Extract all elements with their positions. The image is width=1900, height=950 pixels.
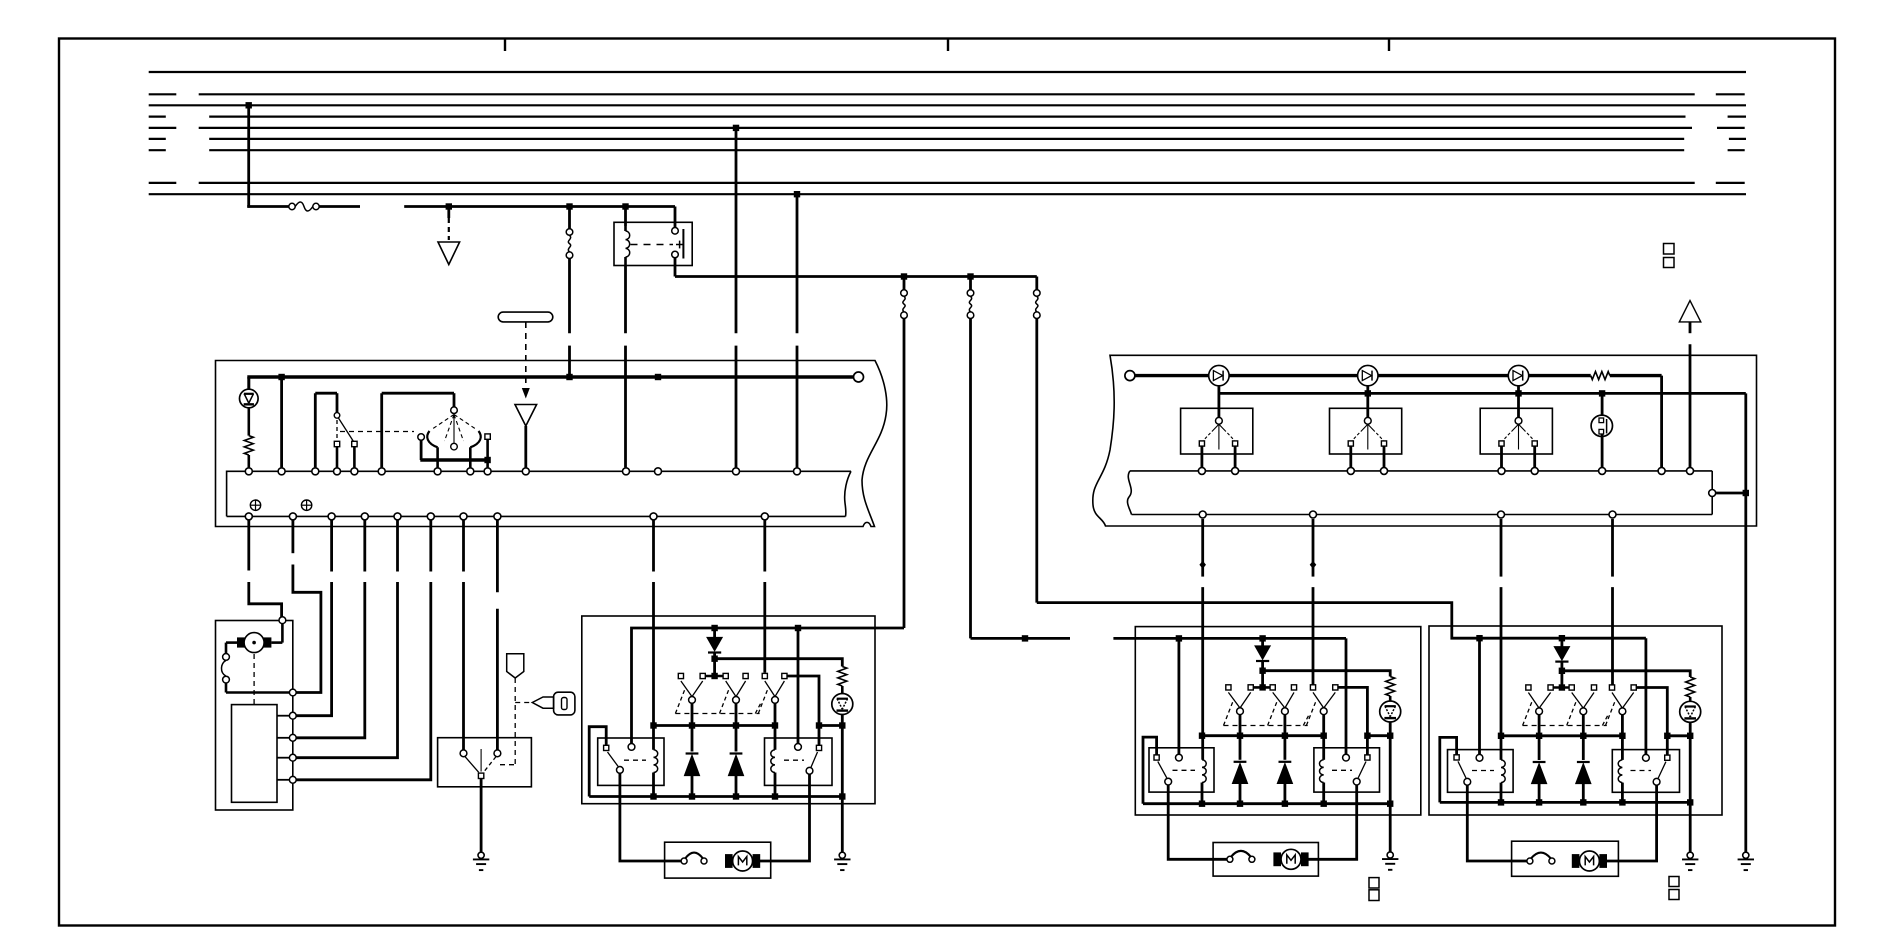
switch pivots (driver) <box>689 697 696 704</box>
node feed/connector drop <box>566 203 572 209</box>
master switch center contact <box>451 443 458 450</box>
wire: right contact leg <box>486 439 489 467</box>
wire: pr down-relay pivot to motor <box>1603 785 1656 861</box>
wire: motor left brush to connector <box>226 641 237 644</box>
wire: pr diode out to resistor <box>1562 671 1690 677</box>
pass-front control unit box <box>1135 627 1421 815</box>
terminal (panel ground) <box>1709 490 1716 497</box>
dashed mechanical link (key) <box>253 654 255 705</box>
node diode out <box>711 656 717 662</box>
pr down-relay pivot <box>1653 778 1660 785</box>
node driver feed/relay2 <box>795 625 801 631</box>
wire: harness bus line 6 <box>209 138 1684 140</box>
master switch left blade <box>427 431 437 447</box>
down-relay contact fixed <box>816 745 821 750</box>
stubs block to pins <box>277 715 289 717</box>
up-relay coil <box>654 750 658 773</box>
node pr feed/diode <box>1559 635 1565 641</box>
up-relay contact fixed <box>604 745 609 750</box>
dashed link lock-switch to master knob <box>340 431 414 433</box>
wire: panel to pr switch unit3 <box>1611 519 1614 577</box>
pr up-relay pivot <box>1464 778 1471 785</box>
wire: to key cylinder unit pin C <box>330 520 333 571</box>
nodes on pr mid tie bar <box>1498 733 1504 739</box>
wire: panel to pf relay coil <box>1201 519 1204 577</box>
node on bus line 3 <box>246 102 252 108</box>
wire: pf mid tie bar <box>1202 734 1324 737</box>
wire: unit3 to relay2 contact <box>787 676 819 745</box>
node pf feed/diode <box>1259 635 1265 641</box>
terminal (panel feed) <box>1125 371 1135 381</box>
down-relay dashed link <box>784 759 804 761</box>
node feed-bus/terminal drop <box>278 374 284 380</box>
wire: master switch feed lower <box>568 258 571 333</box>
wire: switch 2 legs <box>1349 446 1352 467</box>
wire: pivot3 to coil2 <box>774 703 777 750</box>
wire: feed corner into relay contact <box>674 207 677 228</box>
diode (driver, main) <box>713 628 716 638</box>
antenna arrow symbol <box>1679 301 1701 322</box>
wire: diodeA to switch1 <box>1218 385 1221 417</box>
diode B (panel) <box>1358 365 1378 385</box>
wire: driver feed bus (top) <box>632 628 905 744</box>
window lock switch <box>314 393 317 467</box>
key switch contact A <box>460 750 467 757</box>
pr up-relay contact center <box>1476 754 1483 761</box>
terminal row (switch side pins) <box>245 468 252 475</box>
pf down-relay contact center <box>1343 754 1350 761</box>
key switch blade <box>465 757 479 773</box>
key-in detent symbol <box>507 654 524 678</box>
power window master switch body <box>216 361 887 527</box>
wire: to key cylinder unit pin D <box>363 520 366 571</box>
pr down-relay contact center <box>1643 754 1650 761</box>
node T center <box>711 673 717 679</box>
wire: pf resistor to lamp <box>1389 696 1392 701</box>
screw terminal 2 <box>301 500 311 510</box>
wire: pr T feed <box>1561 671 1564 685</box>
up-relay box (pr) <box>1448 750 1514 793</box>
terminal row (panel switch side) <box>1198 467 1205 474</box>
wire: pr coil1 bottom to bus <box>1500 783 1503 803</box>
wire: pass-rear feed horizontal <box>1037 603 1646 639</box>
node pf diode out <box>1259 668 1265 674</box>
wire: pf ground bus <box>1143 802 1390 805</box>
diode (pass-front, main) <box>1261 638 1264 646</box>
relay box (power window relay) <box>614 222 692 265</box>
wire: right blade leg <box>469 447 472 467</box>
node subbus/diodeC <box>1515 390 1521 396</box>
nodes on pr ground bus <box>1498 799 1504 805</box>
node cross-seg/relay2 leg <box>816 722 822 728</box>
passenger switch 1 contacts <box>1199 441 1204 446</box>
pf down-relay dashed link <box>1332 769 1352 771</box>
master switch right contact <box>485 434 490 439</box>
wire: pf down-relay pivot to motor <box>1306 785 1357 859</box>
wire: switch 3 legs <box>1500 446 1503 467</box>
passenger switch 1 box <box>1181 408 1253 454</box>
wire: pr up-relay bracket <box>1440 737 1457 802</box>
wire: pf coil1 bottom to bus <box>1201 783 1204 804</box>
node pr cross-seg/relay2 leg <box>1664 733 1670 739</box>
pf up-relay coil <box>1202 760 1206 783</box>
switch contacts row (pr) <box>1526 685 1531 690</box>
pr up-relay blade <box>1458 761 1466 778</box>
wire: left contact to bridge <box>420 440 423 460</box>
wire: pf pivot3 to coil2 <box>1322 715 1325 760</box>
key switch common contact <box>478 773 483 778</box>
wire: up-relay bracket <box>589 727 606 797</box>
wire: harness bus line 7 <box>209 149 1684 151</box>
wire: coil1 bottom to bus <box>652 773 655 797</box>
switch pivots (pr) <box>1536 708 1543 715</box>
passenger switch 1 mechanism <box>1212 424 1219 431</box>
key switch contact B <box>494 750 501 757</box>
resistor (lamp dropping) <box>244 436 253 455</box>
wire: pf diode out to resistor <box>1263 671 1391 677</box>
master switch left contact <box>418 434 425 441</box>
interior light (pill symbol) <box>498 312 553 322</box>
wire: rear passenger feed upper <box>1035 277 1038 290</box>
node ground jumper/ground wire <box>1743 490 1749 496</box>
wire: connector to pin B <box>225 683 228 693</box>
down-relay blade <box>811 752 818 767</box>
wire: front passenger feed lower <box>969 318 972 638</box>
wire: panel ground jumper <box>1716 492 1746 495</box>
fuse (circuit breaker) in feed line <box>289 203 295 209</box>
pass-rear control unit box <box>1429 626 1722 815</box>
master switch actuating rays <box>433 415 454 429</box>
wire: to driver relay coil 1 <box>652 520 655 571</box>
down-relay coil <box>771 750 775 773</box>
passenger switch 2 mechanism <box>1361 424 1368 431</box>
node feed/relay coil <box>622 203 628 209</box>
switch contacts row (driver) <box>678 673 683 678</box>
up-relay dashed link <box>624 759 646 761</box>
wire: pr mid tie bar <box>1501 734 1622 737</box>
wire: lamp to resistor <box>248 408 251 436</box>
resistor (pr lamp) <box>1686 677 1695 697</box>
node subbus/diodeB <box>1365 390 1371 396</box>
up-relay box (pf) <box>1149 748 1214 792</box>
actuator motor symbol <box>237 637 245 647</box>
wire: pivot1 to diode1 <box>691 703 694 751</box>
key switch dashed blade <box>484 757 497 773</box>
light beam arrowhead <box>522 388 530 399</box>
wire: pf unit3 to relay2 contact <box>1338 687 1368 755</box>
wire: pr lamp to bus <box>1689 722 1692 802</box>
diode A (panel) <box>1209 365 1229 385</box>
pf down-relay coil <box>1319 760 1323 783</box>
connector in front passenger feed <box>967 290 974 297</box>
dashed light beam <box>525 322 527 387</box>
wire: panel to pf switch unit3 <box>1312 519 1315 577</box>
node pf T center <box>1259 684 1265 690</box>
wire: pf bus to ground <box>1389 804 1392 852</box>
wire: feed-bus drop to pin <box>280 377 283 467</box>
nodes on mid tie bar <box>650 722 656 728</box>
down-relay box (pr) <box>1612 750 1679 793</box>
node pr T center <box>1559 684 1565 690</box>
wire: pr pivot2 to diode2 <box>1582 715 1585 760</box>
pin (key unit top) <box>279 617 286 624</box>
wire: drop from bus line 3 <box>247 105 250 206</box>
wire: rear passenger feed lower <box>1035 318 1038 602</box>
driver control unit box <box>582 616 875 804</box>
passenger switch 2 contacts <box>1348 441 1353 446</box>
wire: drop to master switch feed <box>568 207 571 229</box>
nodes on pf ground bus <box>1199 801 1205 807</box>
node lamp/cross-seg <box>839 722 845 728</box>
wire: pr cross segment <box>1667 734 1690 737</box>
key cylinder switch block <box>232 705 278 803</box>
mechanical link (driver switches) <box>675 713 759 715</box>
master switch knob <box>451 407 458 414</box>
wire: diodeB to switch2 <box>1366 385 1369 417</box>
passenger switch 1 knob <box>1216 417 1223 424</box>
wire: motor right brush to pin <box>271 641 282 644</box>
wire: relay2 contact drop <box>797 628 800 744</box>
wire: pf pivot2 to diode2 <box>1284 715 1287 760</box>
node pf cross-seg/relay2 leg <box>1364 733 1370 739</box>
wire: up-relay pivot to motor <box>620 773 681 861</box>
passenger switch 2 knob <box>1364 417 1371 424</box>
passenger switch 2 box <box>1330 408 1402 454</box>
ground (pr unit) <box>1687 852 1693 858</box>
pf down-relay contact fixed <box>1365 755 1370 760</box>
wire: pr up-relay pivot to motor <box>1467 785 1526 861</box>
down-relay box (pf) <box>1314 748 1380 792</box>
screw terminal 1 <box>250 500 260 510</box>
wire: pr relay1 contact drop <box>1478 638 1481 754</box>
wire: to key cylinder unit pin B <box>291 520 294 553</box>
wire: harness bus line 9 <box>149 193 1746 195</box>
illumination lamp (driver unit) <box>832 694 853 715</box>
wire: pivot2 to diode2 <box>735 703 738 751</box>
wire: resistor to terminal <box>248 455 251 467</box>
wire: pf T feed <box>1261 671 1264 685</box>
pr up-relay contact fixed <box>1454 755 1459 760</box>
wire: cross segment <box>819 724 842 727</box>
wire: bus line5 to master switch <box>735 128 738 333</box>
terminal row (harness side pins) <box>245 513 252 520</box>
pf up-relay blade <box>1158 762 1167 778</box>
node pr lamp/cross-seg <box>1687 733 1693 739</box>
wire: front passenger feed upper <box>969 277 972 290</box>
terminal row (panel harness side) <box>1199 511 1206 518</box>
wire: pf cross segment <box>1367 734 1390 737</box>
wire: relay coil to master switch <box>624 266 627 334</box>
wire: harness bus line 2 <box>199 93 1695 95</box>
wire: illumination to switch terminal <box>524 426 527 467</box>
connector in rear passenger feed <box>1034 290 1041 297</box>
wire: pr bus to ground <box>1689 802 1692 851</box>
relay contact (bottom) <box>672 251 679 258</box>
diode2 (pf) <box>1279 761 1292 763</box>
wire: harness bus line 5 <box>199 127 1692 129</box>
node subbus/lamp <box>1599 390 1605 396</box>
pr up-relay dashed link <box>1472 770 1494 772</box>
node pf lamp/cross-seg <box>1387 733 1393 739</box>
wire: arrow lead <box>1689 344 1692 467</box>
panel lamp (2-filament) <box>1591 415 1612 436</box>
wire: diodeC to switch3 <box>1517 385 1520 417</box>
diode (pass-rear, main) <box>1561 638 1564 647</box>
illumination lamp (pf unit) <box>1380 701 1401 722</box>
wire: mid tie bar <box>654 724 776 727</box>
wire: down-relay pivot to motor <box>758 774 810 861</box>
pins (key unit right edge) <box>289 689 296 696</box>
switch blades (pr) <box>1528 693 1539 709</box>
key switch actuator line <box>480 749 482 772</box>
wire: to driver switch unit3 contact <box>763 520 766 571</box>
wire: bridge <box>420 458 487 461</box>
nodes on driver ground bus <box>650 793 656 799</box>
pass-rear window motor unit <box>1512 841 1619 876</box>
diode2 (driver) <box>730 752 743 754</box>
pr down-relay coil <box>1618 760 1622 783</box>
wire: pf coil2 to bus <box>1322 783 1325 804</box>
node pf feed/relay1 <box>1176 635 1182 641</box>
mechanical link (pr switches) <box>1523 725 1607 727</box>
terminal (feed bus end) <box>854 372 864 382</box>
switch contacts row (pf) <box>1226 685 1231 690</box>
down-relay contact center <box>795 744 802 751</box>
wire: lamp to bus <box>841 715 844 797</box>
node feed/ground-arrow <box>446 203 452 209</box>
passenger switch 3 box <box>1480 408 1552 454</box>
pf up-relay dashed link <box>1173 769 1196 771</box>
ground arrow (chassis ground reference) <box>447 207 450 219</box>
wire: resistor to lamp <box>841 686 844 694</box>
wire: relay output <box>674 258 677 277</box>
passenger switch panel body <box>1093 355 1757 526</box>
connector squares (top right) <box>1664 244 1675 255</box>
wire: driver's switch feed upper <box>903 277 906 290</box>
driver window motor unit <box>665 842 771 878</box>
up-relay box (driver) <box>598 738 664 785</box>
wire: bus to ground (driver) <box>841 797 844 852</box>
passenger switch 3 contacts <box>1499 441 1504 446</box>
pr down-relay dashed link <box>1631 770 1652 772</box>
node feed-bus/terminal drop 2 <box>655 374 661 380</box>
wire: coil2 to bus <box>774 773 777 797</box>
node relay-output/driver feed <box>901 273 907 279</box>
wire: harness bus line 4 <box>209 115 1685 117</box>
pass-front window motor unit <box>1213 843 1318 877</box>
pr down-relay contact fixed <box>1665 755 1670 760</box>
relay plus mark <box>676 244 683 246</box>
wire: feed bus corner down <box>1660 376 1663 468</box>
wire: T feed <box>713 659 716 674</box>
wire: to key switch contact A <box>462 520 465 571</box>
wire: subbus to panel lamp <box>1601 393 1604 417</box>
resistor (panel lamp) <box>1591 372 1610 380</box>
illumination receiver triangle <box>515 405 537 427</box>
down-relay pivot <box>806 767 813 774</box>
nodes on pf mid tie bar <box>1199 733 1205 739</box>
switch blades (driver) <box>681 681 692 697</box>
wire: harness bus line 8 <box>199 182 1695 184</box>
relay contact (top) <box>672 228 679 235</box>
wire: to key cylinder unit pin F <box>429 520 432 571</box>
pf down-relay pivot <box>1353 778 1360 785</box>
relay fixed contact bar <box>682 229 684 259</box>
wire: to key cylinder unit pin A <box>247 520 250 570</box>
node on bus line 5 <box>733 125 739 131</box>
wire: to key cylinder unit pin E <box>396 520 399 571</box>
diode C (panel) <box>1508 365 1528 385</box>
pr down-relay blade <box>1658 762 1666 778</box>
wire: pr coil2 to bus <box>1621 783 1624 803</box>
down-relay box (driver) <box>765 738 833 785</box>
diode1 (pr) <box>1533 761 1546 763</box>
illumination lamp (master switch) <box>240 389 259 408</box>
wire: switch 1 legs <box>1201 446 1204 467</box>
node feed-bus/harness drop <box>566 374 572 380</box>
wire: pr pivot3 to coil2 <box>1621 715 1624 760</box>
wire: pf relay1 contact drop <box>1178 638 1181 754</box>
pf up-relay contact center <box>1176 754 1183 761</box>
master switch connector strip <box>227 471 851 516</box>
diode2 (pr) <box>1577 761 1590 763</box>
relay coil <box>626 231 630 257</box>
up-relay pivot <box>617 767 624 774</box>
pf down-relay blade <box>1358 762 1366 778</box>
connector strip (panel) <box>1130 470 1712 472</box>
resistor (driver lamp) <box>838 667 847 687</box>
connector squares (pf) <box>1369 878 1379 888</box>
wire: harness bus line 1 <box>149 71 1746 73</box>
illumination lamp (pr unit) <box>1680 701 1701 722</box>
wire: panel sub bus <box>1219 392 1746 395</box>
wire: pf up-relay bracket <box>1143 737 1157 804</box>
relay internal dashed link <box>631 244 674 246</box>
up-relay blade <box>608 752 619 766</box>
key cylinder switch unit box <box>216 621 293 811</box>
connector in master switch feed <box>566 229 573 236</box>
wire: to key switch contact B <box>496 520 499 592</box>
wire: panel sub bus down to ground <box>1744 393 1747 851</box>
up-relay contact center <box>628 744 635 751</box>
mechanical link (pf switches) <box>1224 725 1308 727</box>
wire: pf up-relay pivot to motor <box>1168 785 1226 859</box>
wire: pf lamp to bus <box>1389 722 1392 804</box>
wire: left blade leg <box>436 447 439 467</box>
pf up-relay pivot <box>1165 778 1172 785</box>
wire: harness bus line 3 <box>149 104 1746 106</box>
ignition key switch box <box>438 738 532 787</box>
wire: pf pivot1 to diode1 <box>1239 715 1242 760</box>
connector squares (pr) <box>1669 877 1679 887</box>
wire: panel feed bus <box>1135 374 1210 377</box>
wire: key switch to ground <box>480 779 483 852</box>
inline connector (2 halves) <box>223 654 230 661</box>
wire: pr pivot1 to diode1 <box>1538 715 1541 760</box>
wire: pass-front feed horizontal <box>971 637 1071 640</box>
passenger switch 3 knob <box>1515 417 1522 424</box>
diode1 (driver) <box>686 752 699 754</box>
node pr feed/relay1 <box>1476 635 1482 641</box>
wire: driver ground bus <box>589 795 842 798</box>
wire: pr ground bus <box>1440 801 1690 804</box>
wire: panel to pr relay coil <box>1500 519 1503 577</box>
node bridge/right leg <box>484 457 490 463</box>
pr up-relay coil <box>1501 760 1505 783</box>
wire: pf feed corner to relay2 <box>1345 638 1348 754</box>
node driver feed/diode <box>711 625 717 631</box>
wire: feed to relay coil <box>624 207 627 227</box>
